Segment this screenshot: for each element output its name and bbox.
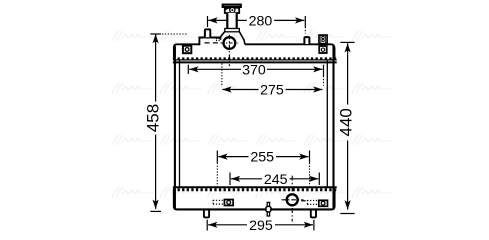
neck left wall [226,13,228,29]
bottom fitting A hole [227,201,231,205]
left bracket [183,46,191,54]
neck interior white [228,13,236,30]
dim 458 vertical line [150,34,161,211]
bottom fitting A dotted rows [213,200,224,205]
right foot [311,211,316,218]
petcock lower slot [267,212,269,216]
boss centerline vertical [228,35,230,66]
svg-text:245: 245 [264,172,288,188]
dim 370 line [188,65,323,76]
dim 440 vertical line [340,42,354,213]
cap cam ring [230,8,235,13]
top tab [205,29,210,37]
drain plug centerline vertical [291,176,293,222]
dim 280 ext dotted [304,27,306,34]
dim 295 line [207,220,314,231]
cap center dot [231,9,233,11]
left foot [204,211,209,218]
bottom fitting B hole [321,201,325,205]
dim 458 arrows [153,34,159,43]
bottom fitting B dotted rows [301,200,318,205]
core left inner line [179,61,181,188]
dim 370 arrows [189,66,198,72]
svg-text:280: 280 [249,13,273,29]
svg-text:458: 458 [143,104,162,132]
filler cap body [225,8,239,13]
bottom fitting A [224,200,233,206]
left bracket hole [185,48,189,52]
core left outer edge [174,46,176,209]
dim 275 line [222,89,322,91]
dim 280 arrows [208,17,217,23]
flare right line [239,31,245,44]
watermark row 4 [112,187,393,197]
right bracket spring circles [322,36,324,38]
core top castellation teeth [173,57,337,60]
dim 280 line [208,16,306,27]
filler boss circle [224,37,236,49]
top right bump [304,37,309,44]
watermark row 3 [112,135,393,145]
svg-text:275: 275 [260,83,284,99]
flare left line [220,31,225,39]
top tank outline [174,38,335,59]
right bracket inner lines [320,35,322,43]
core right outer edge [332,46,334,209]
svg-text:295: 295 [249,218,273,234]
dim 440 arrows [345,43,351,52]
core top thick line [173,61,337,63]
svg-text:440: 440 [336,108,355,136]
dim 275 left ext dotted [221,64,223,86]
petcock upper slot [267,202,269,206]
dim 255 line [217,151,309,163]
drain plug crosshair horizontal [282,199,304,201]
petcock inner stubs [265,208,268,210]
neck right wall [236,13,238,29]
boss crosshair horizontal [221,42,239,44]
right bracket upper box [319,35,327,44]
core bottom thick line [173,186,337,188]
dim 245 line [230,173,319,186]
neck collar [225,29,240,32]
right bracket lower hole [321,48,324,51]
drain plug circle [287,194,298,205]
svg-text:370: 370 [242,62,266,78]
dim 370 right ext dotted [323,76,325,86]
cap wedge [226,8,230,11]
watermark row 2 [112,83,393,93]
core bottom castellation teeth [173,188,337,191]
dim 245 arrows [231,176,240,182]
dim 275 arrows [222,86,231,92]
hidden dashed tank line [205,42,222,44]
bottom tank outline [174,190,335,209]
hidden dotted marks left of boss [216,39,221,41]
dim 255 arrows [218,154,227,160]
cap right ear [239,6,242,8]
cap left ear [222,6,225,8]
dim 255 ext dotted [217,163,309,186]
core right inner line [326,61,328,188]
filler cap top bar [223,5,241,7]
right bracket lower box [319,46,327,53]
core top thin line [173,59,337,61]
bottom fitting B [319,200,328,206]
dim 295 arrows [208,222,217,228]
dim 458 top dotted [162,33,187,35]
watermark row 1 [112,31,393,41]
svg-text:255: 255 [250,150,274,166]
petcock circle [266,206,272,212]
